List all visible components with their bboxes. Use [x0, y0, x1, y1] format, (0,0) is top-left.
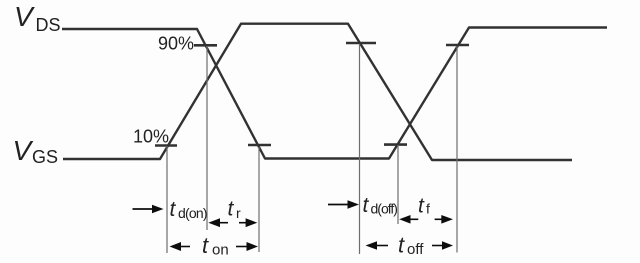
dimension line R1 at VGS 90% fall point — [359, 44, 361, 254]
10% tick on VGS rise — [155, 144, 177, 147]
svg-text:10%: 10% — [133, 126, 169, 146]
V_GS waveform — [63, 24, 572, 160]
svg-text:t: t — [202, 233, 209, 258]
svg-text:90%: 90% — [158, 34, 194, 54]
t_r right arrow — [239, 218, 257, 227]
t_d(off) label — [363, 194, 398, 217]
svg-text:f: f — [426, 201, 430, 217]
t_d(on) label — [170, 198, 207, 221]
lead-in arrow to t_d(off) — [328, 200, 359, 209]
svg-text:on: on — [212, 242, 229, 259]
90% tick left on VDS fall — [194, 44, 217, 47]
svg-text:d(on): d(on) — [178, 205, 207, 221]
t_f right arrow — [435, 215, 453, 224]
lead-in arrow to t_d(on) — [133, 205, 164, 214]
t_r label — [228, 198, 242, 222]
10% tick on VDS rise — [384, 143, 407, 146]
svg-text:DS: DS — [36, 15, 61, 35]
t_on right arrow — [236, 242, 258, 251]
t_off left arrow — [366, 241, 389, 250]
90% tick on VDS rise top — [446, 44, 469, 47]
90% tick on VGS fall — [346, 42, 376, 45]
svg-text:GS: GS — [32, 147, 58, 167]
dimension line L1 at VGS 10% point — [166, 146, 168, 253]
dimension line L3 at VDS 10% point — [258, 147, 260, 252]
t_f label — [418, 195, 430, 218]
dimension line L2 at VDS 90% point — [206, 46, 208, 230]
10% tick on VDS fall bottom — [248, 144, 271, 147]
svg-text:d(off): d(off) — [371, 201, 398, 217]
V_DS waveform — [62, 28, 607, 159]
t_on left arrow — [170, 242, 191, 251]
dimension line R2 at VDS 10% rise point — [397, 145, 399, 224]
t_off right arrow — [432, 241, 453, 250]
t_off label — [398, 232, 424, 257]
t_on label — [202, 233, 229, 259]
svg-text:off: off — [407, 241, 424, 258]
t_r left arrow — [208, 218, 228, 227]
dimension line R3 at VDS 90% rise point — [456, 46, 458, 253]
t_f left arrow — [399, 215, 418, 224]
V_GS label — [13, 135, 59, 167]
svg-text:V: V — [13, 135, 34, 166]
svg-text:t: t — [398, 232, 405, 257]
V_DS label — [14, 1, 61, 35]
svg-text:V: V — [14, 1, 35, 32]
svg-text:r: r — [236, 205, 241, 221]
